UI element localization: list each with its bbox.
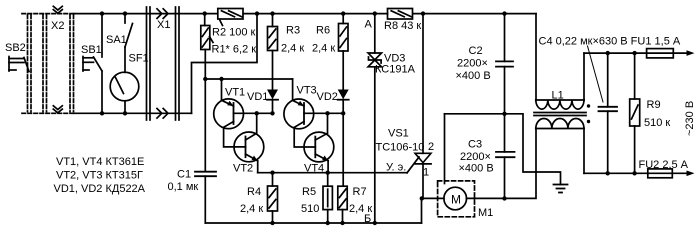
svg-text:2: 2 [428,141,434,153]
resistor R5 [327,173,329,187]
wire bottom rail left section [74,112,192,114]
svg-text:R4: R4 [247,186,261,198]
svg-text:R1* 6,2 к: R1* 6,2 к [212,44,257,56]
wire VT1 emitter riser [221,79,223,100]
motor M1 [422,197,444,199]
svg-text:ТС106-10: ТС106-10 [376,142,425,154]
svg-text:R6: R6 [316,25,330,37]
svg-text:SA1: SA1 [106,34,127,46]
svg-text:VT3: VT3 [297,85,317,97]
connector X1 [146,7,148,120]
connector X2 (dashed) [22,14,74,114]
wire motor to L1 bottom [505,129,537,199]
svg-text:M1: M1 [478,207,493,219]
X2 chevron top [53,6,62,10]
wire C2/C3 node row [445,114,561,185]
svg-text:X2: X2 [51,20,64,32]
diode VD1 [272,14,274,27]
transistor VT4 [304,132,334,162]
svg-text:VT1, VT4 КТ361Е: VT1, VT4 КТ361Е [56,156,144,168]
svg-text:C4 0,22 мк×630 В FU1 1,5 А: C4 0,22 мк×630 В FU1 1,5 А [539,36,681,48]
svg-text:А: А [365,19,373,31]
svg-text:510 к: 510 к [644,117,670,129]
wire VT2 collector riser [256,113,258,133]
diode VD2 [342,51,344,90]
wire bottom rail riser to cathode node [421,198,423,223]
wire neutral jog from X1 bottom up to top rail [192,14,258,114]
svg-text:VT2, VT3 КТ315Г: VT2, VT3 КТ315Г [56,170,143,182]
pushbutton SB1 [82,57,84,72]
svg-text:2,4 к: 2,4 к [281,43,304,55]
breaker SF1 [124,47,126,72]
svg-text:VS1: VS1 [388,128,409,140]
svg-text:C3: C3 [468,139,482,151]
thyristor VS1 [422,14,424,154]
wire VT2 emitter lead [257,161,259,173]
C4 label leader [588,46,604,102]
svg-text:КС191А: КС191А [375,64,416,76]
svg-text:C1: C1 [177,169,191,181]
fuse FU2 [648,169,673,178]
svg-text:VT2: VT2 [233,163,253,175]
wire VT3 emitter riser [292,79,294,100]
resistor R7 [338,186,347,209]
svg-text:L1: L1 [552,90,564,102]
zener VD3 [374,14,376,53]
fuse FU1 [647,49,674,58]
X1 chevron top [157,9,162,19]
wire gate bus [258,172,407,174]
svg-text:VD2: VD2 [317,91,338,103]
wire top rail left section [74,13,217,15]
wire VT1 collector to VT2 base [224,127,246,147]
svg-text:SF1: SF1 [129,53,149,65]
wire L1 bottom right to FU2 rail [583,129,585,174]
wire VT4 collector riser [327,113,329,133]
svg-text:510: 510 [301,203,319,215]
svg-text:FU2 2,5 А: FU2 2,5 А [639,159,689,171]
svg-text:~230 В: ~230 В [684,101,696,136]
wire top rail right [413,13,536,15]
svg-text:×400 В: ×400 В [459,163,494,175]
wire VS1 gate [407,157,419,173]
pushbutton SB2 [8,57,10,72]
wire dashed top rail through X2 [22,13,74,15]
transistor VT1 [214,99,244,129]
resistor R3 [268,27,278,51]
svg-text:SB2: SB2 [5,42,26,54]
svg-text:R7: R7 [353,186,367,198]
svg-text:×400 В: ×400 В [456,70,491,82]
svg-text:VT4: VT4 [304,163,324,175]
svg-text:0,1 мк: 0,1 мк [168,181,199,193]
wire top rail mid [243,13,387,15]
svg-text:2200×: 2200× [460,151,491,163]
transistor VT2 [234,132,264,162]
capacitor C3 [504,114,506,152]
svg-text:VD1, VD2 КД522А: VD1, VD2 КД522А [54,183,146,195]
svg-text:M: M [451,193,461,207]
X1 chevron bottom [157,109,162,119]
svg-text:C2: C2 [469,45,483,57]
wire VT4 emitter lead [327,161,329,173]
capacitor C1 [204,79,206,172]
wire bottom rail [205,222,421,224]
wire VT3 collector to VT4 base [294,127,315,147]
wire dashed bottom rail through X2 [22,112,74,114]
capacitor C4 [607,53,609,107]
svg-text:Б: Б [364,213,371,225]
resistor R8 [388,9,413,20]
svg-text:2,4 к: 2,4 к [240,203,263,215]
svg-text:У. э.: У. э. [386,162,406,174]
svg-text:VT1: VT1 [225,86,245,98]
inductor L1 [535,14,537,100]
resistor R2 [218,9,243,20]
wire L1 top right to FU1 rail [583,53,585,100]
svg-text:R9: R9 [647,99,661,111]
wire emitters bus [205,78,292,80]
ground [554,184,568,186]
transistor VT3 [284,99,314,129]
X2 chevron bottom [53,106,62,110]
resistor R1 [204,14,206,26]
svg-text:R2 100 к: R2 100 к [212,27,256,39]
svg-text:R5: R5 [302,186,316,198]
svg-text:R8 43 к: R8 43 к [384,20,421,32]
svg-text:X1: X1 [157,19,170,31]
resistor R4 [272,173,274,186]
switch SA1 [124,14,126,23]
resistor R9 [634,53,636,99]
resistor R6 [342,14,344,24]
svg-text:2200×: 2200× [457,58,488,70]
svg-text:2,4 к: 2,4 к [312,43,335,55]
wire VD2 cathode down to R7 [342,100,344,187]
svg-text:R3: R3 [286,25,300,37]
wire SB1 branch [101,14,103,57]
svg-text:1: 1 [423,167,429,179]
capacitor C2 [504,14,506,62]
svg-text:VD1: VD1 [247,91,268,103]
svg-text:SB1: SB1 [81,44,102,56]
